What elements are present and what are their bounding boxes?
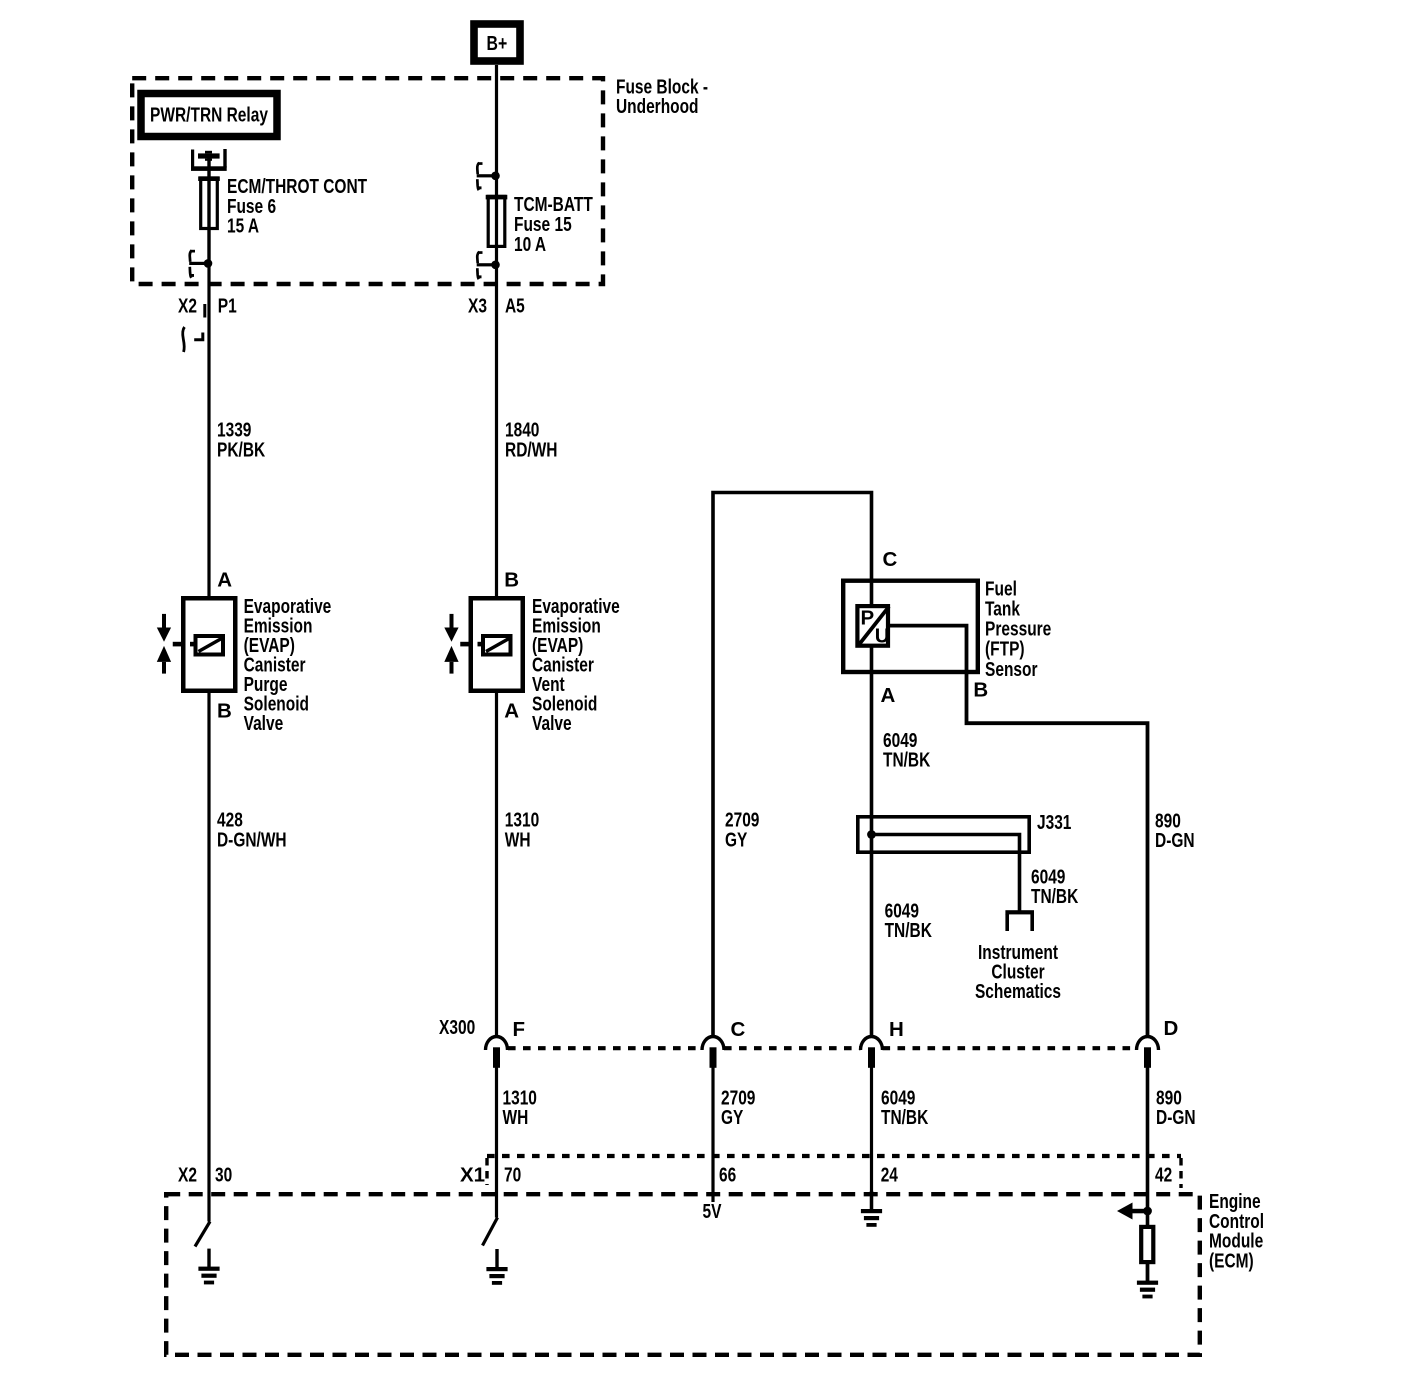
X300 terminal D (1137, 1037, 1159, 1068)
connector X3 A5 labels (468, 295, 525, 318)
signal arrow at pin 42 (1117, 1203, 1152, 1220)
svg-text:Sensor: Sensor (985, 658, 1038, 681)
wire P/U to pin B elbow (889, 626, 1148, 1036)
X300 dotted line (508, 1046, 1137, 1050)
svg-text:Schematics: Schematics (975, 980, 1061, 1003)
label 6049 TN/BK branch (1031, 865, 1078, 908)
svg-text:TN/BK: TN/BK (885, 919, 932, 942)
power symbol B+ (474, 24, 520, 61)
svg-text:24: 24 (881, 1164, 899, 1187)
svg-text:WH: WH (505, 828, 531, 851)
svg-text:C: C (883, 548, 898, 571)
svg-text:30: 30 (215, 1164, 232, 1187)
fuse F6 ECM/THROT CONT (198, 176, 220, 228)
terminal tick at X2 P1 (203, 304, 206, 318)
label 6049 TN/BK upper (883, 729, 930, 772)
svg-text:J331: J331 (1037, 811, 1071, 834)
relay PWR/TRN (141, 94, 277, 137)
X300 terminal F (486, 1037, 508, 1068)
svg-text:42: 42 (1155, 1164, 1172, 1187)
fuse 6 output clip (189, 250, 212, 278)
label Fuse Block - Underhood (616, 75, 708, 118)
X300 terminal C (702, 1037, 724, 1068)
wire 1310 WH upper (495, 691, 498, 1036)
label TCM-BATT Fuse 15 10 A (514, 193, 593, 256)
svg-text:15 A: 15 A (227, 215, 259, 238)
clip below TCM fuse (477, 251, 500, 279)
ground at pin 30 (198, 1249, 219, 1285)
label 2709 GY upper (725, 809, 759, 852)
svg-text:X300: X300 (439, 1016, 475, 1039)
svg-text:A5: A5 (505, 295, 525, 318)
svg-text:70: 70 (504, 1164, 521, 1187)
svg-text:D-GN/WH: D-GN/WH (217, 828, 287, 851)
label X2 30 (178, 1164, 232, 1187)
label Engine Control Module ECM (1209, 1190, 1264, 1272)
label Evaporative Emission EVAP Canister Purge Solenoid Valve (244, 595, 332, 735)
svg-text:A: A (217, 569, 232, 592)
svg-text:X2: X2 (178, 295, 197, 318)
wire 6049 TN/BK lower (870, 1066, 873, 1209)
connector X2 P1 labels (178, 295, 237, 318)
wire 1339 PK/BK (207, 263, 210, 598)
fuse F15 TCM-BATT (486, 195, 508, 247)
svg-text:TN/BK: TN/BK (883, 749, 930, 772)
svg-text:X3: X3 (468, 295, 487, 318)
wire 1310 WH lower (495, 1066, 498, 1218)
wire 2709 GY riser and top run (713, 493, 872, 1037)
label 2709 GY lower (721, 1086, 755, 1129)
svg-text:WH: WH (503, 1106, 529, 1129)
wire 890 D-GN lower (1146, 1066, 1150, 1211)
svg-text:5V: 5V (703, 1200, 722, 1223)
svg-text:GY: GY (725, 828, 748, 851)
label Instrument Cluster Schematics (975, 941, 1061, 1003)
pressure transducer P/U symbol (857, 606, 889, 647)
label 890 D-GN lower (1156, 1086, 1196, 1129)
switch at pin 70 (483, 1218, 498, 1246)
label 428 D-GN/WH (217, 809, 287, 852)
wire 2709 GY lower (711, 1066, 714, 1202)
svg-text:C: C (731, 1018, 746, 1041)
svg-text:A: A (504, 699, 519, 722)
wire 428 D-GN/WH (207, 691, 210, 1222)
wire relay to Fuse 6 (207, 156, 210, 263)
ground at pin 24 (861, 1191, 882, 1227)
svg-text:U: U (875, 624, 890, 647)
label Evaporative Emission EVAP Canister Vent Solenoid Valve (532, 595, 620, 735)
svg-text:TN/BK: TN/BK (1031, 885, 1078, 908)
ground at pin 70 (486, 1249, 507, 1285)
label 1339 PK/BK (217, 419, 265, 462)
svg-text:B: B (217, 699, 232, 722)
label ECM/THROT CONT Fuse 6 15 A (227, 175, 367, 237)
label 6049 TN/BK lower (885, 899, 932, 942)
svg-text:TN/BK: TN/BK (881, 1106, 928, 1129)
svg-text:PWR/TRN Relay: PWR/TRN Relay (150, 104, 268, 127)
ECM connector X1 dotted line (487, 1156, 1181, 1188)
svg-text:10 A: 10 A (514, 233, 546, 256)
in-line connector below X2 P1 (183, 327, 203, 352)
svg-text:F: F (513, 1018, 526, 1041)
label 890 D-GN upper (1155, 809, 1195, 852)
svg-text:(ECM): (ECM) (1209, 1249, 1254, 1272)
svg-text:H: H (889, 1018, 904, 1041)
fuse block underhood dashed box (132, 78, 603, 284)
svg-text:RD/WH: RD/WH (505, 438, 558, 461)
svg-text:D: D (1164, 1017, 1179, 1040)
svg-text:GY: GY (721, 1106, 744, 1129)
svg-text:PK/BK: PK/BK (217, 438, 265, 461)
label 1310 WH upper (505, 809, 539, 852)
ground at pin 42 (1137, 1263, 1158, 1299)
wire B+ to TCM-BATT fuse (495, 65, 498, 177)
switch at pin 30 (195, 1222, 210, 1247)
svg-text:Underhood: Underhood (616, 95, 699, 118)
label X1 70 (460, 1164, 521, 1187)
wire 1840 RD/WH (495, 265, 498, 598)
svg-text:X2: X2 (178, 1164, 197, 1187)
resistor in ECM (1141, 1211, 1153, 1281)
off-page connector to instrument cluster (1005, 910, 1034, 931)
wire 6049 TN/BK (870, 646, 874, 1036)
svg-text:P1: P1 (218, 295, 237, 318)
X300 terminal H (861, 1037, 883, 1068)
svg-text:D-GN: D-GN (1155, 829, 1195, 852)
EVAP canister purge solenoid valve (157, 598, 235, 691)
svg-text:A: A (881, 684, 896, 707)
label 1310 WH lower (503, 1086, 537, 1129)
wire fuse 15 internal (495, 175, 498, 265)
svg-text:P: P (861, 606, 875, 629)
EVAP canister vent solenoid valve (444, 598, 522, 691)
svg-text:B: B (973, 679, 988, 702)
relay output terminal (191, 149, 227, 171)
splice J331 box (858, 817, 1029, 852)
svg-text:B: B (504, 569, 519, 592)
svg-text:X1: X1 (460, 1164, 485, 1187)
clip above TCM fuse (477, 162, 500, 190)
svg-text:66: 66 (719, 1164, 736, 1187)
splice J331 branch (867, 830, 1019, 911)
label 6049 TN/BK bottom (881, 1086, 928, 1129)
svg-text:Valve: Valve (244, 712, 284, 735)
svg-text:B+: B+ (487, 32, 508, 55)
FTP sensor box (843, 581, 978, 672)
svg-text:Valve: Valve (532, 712, 572, 735)
ECM dashed box (166, 1194, 1200, 1355)
svg-text:D-GN: D-GN (1156, 1106, 1196, 1129)
label 1840 RD/WH (505, 419, 558, 462)
label Fuel Tank Pressure FTP Sensor (985, 577, 1051, 680)
